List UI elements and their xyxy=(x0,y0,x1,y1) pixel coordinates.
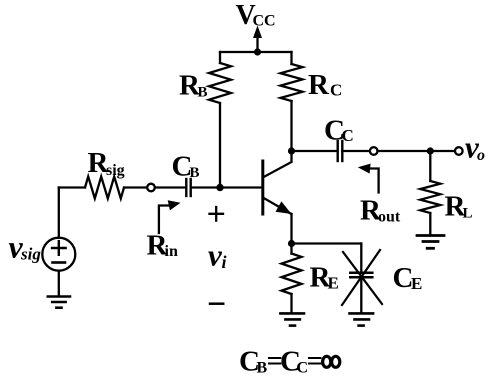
wire vsig bottom to ground xyxy=(58,271,60,296)
label RB xyxy=(179,70,208,102)
svg-text:=: = xyxy=(307,345,324,377)
VCC supply arrow xyxy=(253,26,262,53)
wire CC to output terminal xyxy=(342,150,370,152)
label CB xyxy=(172,151,200,183)
svg-text:L: L xyxy=(463,206,473,222)
cross-out X over CE xyxy=(342,250,382,305)
resistor Rsig xyxy=(85,177,124,199)
node emitter junction dot xyxy=(288,240,295,247)
wire RB bottom to base node xyxy=(219,103,221,188)
label infinity symbol xyxy=(323,356,340,367)
arrow Rout xyxy=(358,164,379,193)
svg-text:i: i xyxy=(222,252,227,272)
label VCC xyxy=(236,0,276,31)
capacitor CB xyxy=(186,179,190,196)
node vo (open circle) xyxy=(455,147,463,155)
label formula CB=CC=infinity xyxy=(239,345,323,378)
node VCC junction dot xyxy=(254,48,261,55)
label Rin xyxy=(147,230,178,262)
svg-text:B: B xyxy=(198,85,208,101)
label RC xyxy=(308,69,342,101)
label vsig xyxy=(9,229,42,265)
resistor RE xyxy=(282,244,302,313)
arrow Rin xyxy=(159,200,181,233)
label RL xyxy=(445,191,473,223)
ground under RE xyxy=(280,313,304,325)
wire RL bottom to ground xyxy=(429,213,431,235)
svg-text:CC: CC xyxy=(253,13,276,30)
svg-text:C: C xyxy=(342,126,354,145)
capacitor CE xyxy=(350,244,372,313)
wire RL top xyxy=(429,151,431,181)
transistor Q1 xyxy=(263,151,292,244)
label CE xyxy=(393,262,423,294)
svg-text:R: R xyxy=(308,69,330,101)
resistor RL xyxy=(420,181,440,213)
node output terminal (open circle) xyxy=(370,147,378,155)
node RL junction dot xyxy=(427,147,434,154)
node base junction dot xyxy=(216,184,223,191)
resistor RC xyxy=(281,52,303,101)
wire CB to base xyxy=(191,186,263,188)
ground under vsig xyxy=(48,297,70,308)
svg-text:out: out xyxy=(378,209,401,226)
wire vsig top to Rsig xyxy=(58,188,60,238)
voltage source vsig xyxy=(42,238,75,271)
label vo xyxy=(465,130,485,165)
label vi xyxy=(208,238,227,273)
svg-text:C: C xyxy=(330,81,342,100)
ground under CE xyxy=(350,313,374,325)
svg-text:o: o xyxy=(477,147,485,164)
wire output terminal to vo xyxy=(378,150,456,152)
node input terminal (open circle) xyxy=(147,184,155,192)
svg-text:B: B xyxy=(190,165,200,181)
svg-text:E: E xyxy=(328,274,339,293)
svg-text:sig: sig xyxy=(20,245,41,264)
svg-text:sig: sig xyxy=(106,162,125,179)
label RE xyxy=(310,262,339,294)
wire Rsig to input terminal xyxy=(124,186,147,188)
label minus (vi) xyxy=(210,302,223,305)
resistor RB xyxy=(209,52,231,103)
wire emitter node to CE xyxy=(292,242,362,244)
wire collector to CC xyxy=(292,150,337,152)
wire vsig to Rsig xyxy=(59,186,85,188)
wire RC bottom to collector node xyxy=(290,101,292,151)
wire input terminal to CB xyxy=(155,186,185,188)
svg-text:E: E xyxy=(411,274,422,293)
label plus (vi) xyxy=(210,207,224,221)
label Rsig xyxy=(88,147,125,179)
svg-text:in: in xyxy=(165,243,178,260)
ground under RL xyxy=(417,236,444,249)
capacitor CC xyxy=(338,141,343,161)
label CC xyxy=(324,115,354,147)
label Rout xyxy=(360,195,401,227)
wire top supply rail xyxy=(220,51,292,53)
node collector junction dot xyxy=(288,147,295,154)
